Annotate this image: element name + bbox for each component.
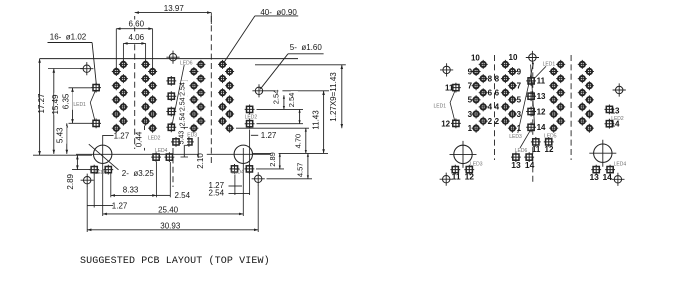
hole Ø1.60 right — [252, 84, 265, 97]
svg-text:7: 7 — [517, 82, 522, 91]
svg-text:11.43: 11.43 — [311, 110, 320, 130]
LED1 leader top middle — [534, 66, 546, 79]
LED pads beside left mounting hole — [89, 165, 113, 175]
svg-text:9: 9 — [517, 67, 522, 76]
pin numbers 11 12 bottom-left — [452, 172, 475, 182]
svg-text:1.27: 1.27 — [261, 131, 277, 140]
svg-text:LED6: LED6 — [515, 148, 528, 154]
svg-text:4.70: 4.70 — [294, 134, 303, 149]
svg-text:1.27: 1.27 — [112, 202, 128, 211]
svg-text:5.43: 5.43 — [56, 127, 65, 143]
extension line bottom pad row right — [236, 127, 309, 129]
dimension 2.89 left — [76, 155, 78, 169]
svg-text:4: 4 — [495, 103, 500, 112]
extension line circle row right — [253, 152, 328, 154]
LED pads 11/12 left group (right view) — [451, 83, 461, 129]
svg-text:25.40: 25.40 — [158, 205, 179, 214]
svg-text:LED3: LED3 — [509, 134, 522, 140]
svg-text:2.54: 2.54 — [287, 93, 296, 108]
top edge reference line — [40, 58, 298, 60]
leader bottom middle — [520, 129, 531, 148]
svg-text:11: 11 — [537, 77, 546, 86]
LED1 leader — [90, 91, 95, 121]
centerline connector 2 (right view) — [570, 55, 572, 160]
dimension 8.33 — [111, 194, 157, 196]
pad column R1 (pin array) — [472, 67, 481, 133]
svg-text:2: 2 — [488, 117, 493, 126]
LED pads middle column — [166, 76, 176, 132]
dimension 1.27 near pair1 — [103, 135, 110, 137]
svg-text:1.27: 1.27 — [114, 131, 130, 140]
hole Ø1.60 right (right view) — [613, 83, 626, 96]
dimension 11.43 — [323, 91, 325, 154]
svg-text:0.44: 0.44 — [134, 131, 143, 147]
svg-text:13: 13 — [611, 107, 620, 116]
extension line led pad right 1 — [257, 108, 304, 110]
pin numbers bottom middle 13 14 — [511, 160, 534, 170]
dimension 4.06 — [123, 42, 145, 44]
mounting hole Ø3.25 left (right view) — [450, 141, 477, 168]
dimension 25.40 — [103, 213, 244, 215]
svg-text:2.54: 2.54 — [272, 90, 281, 105]
pad column L1 (40-x Ø0.90 holes) — [112, 67, 121, 133]
dimension 5.43 left — [66, 123, 68, 154]
svg-text:LED6: LED6 — [180, 60, 193, 66]
svg-text:2.54: 2.54 — [209, 188, 225, 197]
dimension 4.70 — [305, 128, 307, 153]
svg-text:LED4: LED4 — [155, 148, 168, 154]
extension line led pad right 2 — [257, 123, 304, 125]
dimension 2.54 bottom — [156, 194, 170, 196]
LED pads bottom middle row upper — [171, 137, 194, 147]
svg-text:4.57: 4.57 — [296, 162, 305, 177]
svg-text:3: 3 — [517, 110, 522, 119]
dimension 4.57 — [307, 153, 309, 178]
svg-text:LED5: LED5 — [544, 133, 557, 139]
svg-text:5: 5 — [517, 96, 522, 105]
svg-text:6.60: 6.60 — [129, 19, 145, 28]
centerline connector 1 (left view) — [134, 16, 136, 149]
LED1 leader (right view) — [450, 91, 455, 121]
svg-text:2.89: 2.89 — [268, 152, 277, 167]
svg-text:6.35: 6.35 — [62, 93, 71, 109]
LED pads middle column (right view) — [526, 76, 536, 132]
LED2 pads (right column) — [245, 105, 255, 129]
centerline connector 2 (left view) — [210, 16, 212, 163]
leader diagonal middle 2 — [531, 65, 535, 127]
dimension 6.60 — [116, 28, 152, 30]
svg-text:2.10: 2.10 — [196, 153, 205, 169]
svg-text:7: 7 — [468, 82, 473, 91]
pin numbers connector1 left half — [468, 53, 493, 133]
svg-text:LED3: LED3 — [95, 170, 108, 176]
vertical line through left mounting hole — [102, 135, 104, 216]
svg-text:14: 14 — [537, 123, 546, 132]
svg-text:30.93: 30.93 — [160, 221, 181, 230]
svg-text:13: 13 — [589, 172, 599, 182]
svg-text:2.54: 2.54 — [179, 113, 186, 127]
hole Ø1.60 bottom-left — [81, 174, 94, 187]
LED pads bottom middle row lower — [151, 152, 174, 162]
dimension 17.27 left — [39, 59, 41, 156]
svg-text:6: 6 — [488, 89, 493, 98]
svg-text:2- ø3.25: 2- ø3.25 — [122, 169, 155, 178]
svg-text:LED1: LED1 — [543, 62, 556, 68]
hole Ø1.60 top-center — [166, 51, 179, 64]
pad column R5 (pin array) — [549, 67, 558, 133]
LED pads bottom middle 13/14 (right view) — [511, 152, 534, 162]
dimension 1.27 near pair4 — [251, 134, 258, 136]
pad column L8 (40-x Ø0.90 holes) — [225, 67, 234, 133]
dimension 15.49 — [53, 69, 55, 154]
horizontal centerline through mounting holes — [76, 153, 270, 155]
pad column R3 (pin array) — [501, 60, 510, 126]
svg-text:5.43: 5.43 — [179, 131, 186, 145]
vertical line through right mounting hole — [242, 148, 244, 216]
dimension 0.44 — [144, 126, 146, 151]
svg-text:11: 11 — [445, 83, 454, 92]
svg-text:LED2: LED2 — [245, 115, 258, 121]
svg-text:11: 11 — [452, 172, 461, 182]
extension line top pad row right — [255, 64, 346, 66]
hole Ø1.60 top-left — [80, 62, 93, 75]
LED pads bottom middle 11/12 (right view) — [531, 137, 554, 147]
svg-text:15.49: 15.49 — [51, 94, 60, 115]
LED pads 13/14 right column (right view) — [605, 105, 615, 129]
svg-text:LED1: LED1 — [73, 102, 86, 108]
svg-text:12: 12 — [545, 145, 554, 154]
pad column L6 (40-x Ø0.90 holes) — [196, 60, 205, 126]
hole Ø1.60 top-center (right view) — [526, 51, 539, 64]
leader diagonal middle 1 — [518, 63, 534, 134]
svg-text:8: 8 — [495, 74, 500, 83]
dimension 13.97 top — [135, 12, 212, 14]
pad column L5 (40-x Ø0.90 holes) — [189, 67, 198, 133]
extension line bottom crosshair right — [267, 178, 313, 180]
dimension chain 2.54 x3 middle column — [183, 81, 185, 157]
svg-text:LED2: LED2 — [611, 116, 624, 122]
svg-text:2: 2 — [495, 117, 500, 126]
dimension 30.93 — [87, 229, 258, 231]
pad column R4 (pin array) — [508, 67, 517, 133]
svg-text:SUGGESTED PCB LAYOUT (TOP VIEW: SUGGESTED PCB LAYOUT (TOP VIEW) — [80, 255, 270, 267]
svg-text:2.54: 2.54 — [179, 82, 186, 96]
svg-text:4.06: 4.06 — [129, 33, 145, 42]
svg-text:2.54: 2.54 — [175, 191, 191, 200]
hole Ø1.60 bottom-right — [252, 172, 265, 185]
svg-text:12: 12 — [537, 107, 546, 116]
svg-text:9: 9 — [468, 67, 473, 76]
pin numbers 13 14 bottom-right — [589, 172, 612, 182]
hole Ø1.60 bottom-right (right view) — [611, 173, 624, 186]
vertical centerline (left view) — [172, 148, 174, 187]
pad column R7 (pin array) — [578, 60, 587, 126]
svg-text:13: 13 — [537, 92, 546, 101]
svg-text:13: 13 — [511, 160, 521, 170]
pad column L2 (40-x Ø0.90 holes) — [119, 60, 128, 126]
svg-text:5: 5 — [468, 96, 473, 105]
dimension 2.54 right B — [299, 109, 301, 123]
LED6 leader diagonal — [172, 65, 185, 127]
hole Ø1.60 bottom-left (right view) — [440, 173, 453, 186]
svg-text:14: 14 — [525, 160, 535, 170]
svg-text:4: 4 — [488, 103, 493, 112]
svg-text:8.33: 8.33 — [123, 186, 139, 195]
LED pads beside right mounting hole — [230, 164, 255, 174]
svg-text:17.27: 17.27 — [37, 93, 46, 114]
hole Ø1.60 top-left (right view) — [440, 63, 453, 76]
pin numbers bottom middle 11 12 — [532, 145, 554, 154]
pad column R2 (pin array) — [479, 60, 488, 126]
mounting hole Ø3.25 right (right view) — [589, 140, 616, 167]
dimension 2.54 right A — [283, 95, 285, 109]
svg-text:LED2: LED2 — [148, 136, 161, 142]
svg-text:14: 14 — [602, 172, 612, 182]
svg-text:8: 8 — [488, 74, 493, 83]
svg-text:2.54: 2.54 — [179, 97, 186, 111]
svg-text:13.97: 13.97 — [164, 4, 185, 13]
pad column L3 (40-x Ø0.90 holes) — [141, 60, 150, 126]
svg-text:12: 12 — [465, 172, 475, 182]
svg-text:LED4: LED4 — [231, 170, 244, 176]
svg-text:LED1: LED1 — [434, 103, 447, 109]
pad column L7 (40-x Ø0.90 holes) — [218, 60, 227, 126]
dimension 2.10 — [197, 137, 199, 158]
svg-text:LED4: LED4 — [614, 162, 627, 168]
mounting hole Ø3.25 right — [234, 145, 252, 163]
svg-text:11: 11 — [532, 145, 541, 154]
extension line crosshair right — [266, 90, 330, 92]
LED pads beside right mounting hole (right view) — [591, 165, 615, 175]
svg-text:10: 10 — [471, 53, 480, 62]
LED pads beside left mounting hole (right view) — [450, 165, 474, 175]
pad column R6 (pin array) — [556, 60, 565, 126]
mounting hole Ø3.25 left — [94, 145, 112, 163]
dimension 1.27X9=11.43 — [341, 65, 343, 128]
pin numbers middle column 11 13 12 14 — [537, 77, 546, 132]
svg-text:12: 12 — [441, 119, 450, 128]
extension line bottom pads right — [256, 168, 284, 170]
dimension 2.89 right — [279, 153, 281, 169]
svg-text:5- ø1.60: 5- ø1.60 — [290, 43, 323, 52]
svg-text:6: 6 — [495, 89, 500, 98]
pad column R8 (pin array) — [585, 67, 594, 133]
svg-text:3: 3 — [468, 110, 473, 119]
svg-text:2.89: 2.89 — [66, 173, 75, 189]
dimension 5.43 middle — [180, 129, 187, 145]
pin numbers connector1 right half — [495, 53, 522, 133]
LED1 pads (left side) — [91, 83, 101, 129]
dimension 6.35 — [72, 88, 74, 124]
centerline connector 1 (right view) — [494, 55, 496, 160]
svg-text:16- ø1.02: 16- ø1.02 — [50, 32, 87, 41]
pad column L4 (40-x Ø0.90 holes) — [148, 67, 157, 133]
svg-text:LED3: LED3 — [470, 161, 483, 167]
svg-text:10: 10 — [509, 53, 518, 62]
svg-text:1: 1 — [468, 124, 473, 133]
svg-text:1.27X9=11.43: 1.27X9=11.43 — [329, 72, 338, 122]
vertical centerline (right view) — [532, 63, 534, 183]
dimension 1.27 bottom-left — [87, 205, 94, 207]
